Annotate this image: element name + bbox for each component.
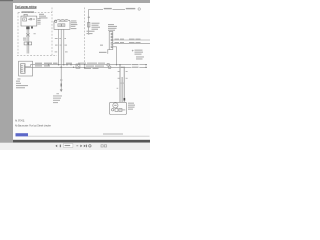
window top-left edge bbox=[0, 0, 13, 1]
relay K1 coil bbox=[23, 18, 27, 21]
pump terminal 1 bbox=[115, 109, 118, 112]
connector strip X1 labels above bbox=[108, 24, 117, 31]
dashed enclosure E2 vertical bbox=[51, 8, 53, 56]
ground drop wire bbox=[60, 67, 62, 89]
junction dots bbox=[48, 64, 147, 68]
main bus wire lower bbox=[25, 66, 147, 68]
wire from relay K1 down a bbox=[26, 26, 28, 54]
label on rail 2 bbox=[126, 8, 136, 9]
svg-text:Nr. 970411: Nr. 970411 bbox=[15, 119, 25, 123]
X1 bottom stub wire bbox=[108, 50, 109, 54]
U1 index circle bbox=[55, 21, 57, 23]
wire U1 pin1 down bbox=[58, 29, 60, 64]
inline connector pair C2 bbox=[24, 42, 27, 45]
splice block bbox=[31, 27, 33, 29]
ground arrow bbox=[60, 89, 63, 92]
fuel pump M1 box bbox=[110, 102, 127, 114]
pump wire 1 bbox=[119, 65, 121, 103]
terminal circle at rail end bbox=[138, 8, 140, 10]
dashed enclosure E1 bottom bbox=[17, 54, 57, 56]
toolbar zoom buttons bbox=[101, 145, 103, 147]
wire tick bbox=[60, 79, 62, 80]
dashed enclosure E1 left vertical bbox=[17, 12, 19, 55]
pump inner label bbox=[120, 109, 126, 110]
page footer fine print bbox=[103, 133, 123, 134]
U1 pin box 2 bbox=[62, 24, 65, 27]
toolbar first page button bbox=[55, 145, 57, 148]
pump wire labels bbox=[117, 71, 128, 89]
fusebox feed vertical bbox=[88, 9, 90, 33]
label under switch S1 bbox=[16, 78, 28, 88]
wire from relay K1 down b bbox=[28, 26, 30, 54]
inline connector on bus bbox=[76, 64, 80, 68]
wire code ticks on U1 wires bbox=[55, 38, 68, 52]
relay K1 contact bbox=[28, 18, 30, 20]
svg-text:Ab Baumuster: Fuel cut Diesel: Ab Baumuster: Fuel cut Diesel checker bbox=[15, 124, 51, 128]
bottom toolbar background bbox=[0, 143, 150, 150]
wire U1 pin2 down bbox=[60, 29, 62, 67]
splice segment dark bbox=[61, 84, 62, 87]
wire code labels bbox=[34, 33, 36, 34]
dashed enclosure E1 top bbox=[18, 12, 52, 14]
toolbar prev button bbox=[60, 145, 61, 148]
wire twist symbol bbox=[26, 33, 29, 36]
wire from X1 pin A bbox=[113, 39, 150, 41]
label right of pump bbox=[128, 103, 135, 110]
pump wire 2 (middle, lower run) bbox=[121, 77, 123, 102]
plus mark bbox=[132, 50, 134, 52]
white schematic page bbox=[13, 3, 150, 140]
connector strip X1 bbox=[109, 32, 113, 50]
fuse labels right bbox=[87, 23, 101, 34]
pump wire 3 bbox=[123, 67, 125, 98]
feed tick bbox=[88, 17, 90, 18]
form divider line bbox=[28, 135, 150, 137]
S1 internal wire step bbox=[25, 65, 33, 67]
viewer background margin bbox=[0, 0, 150, 150]
bus wire labels mid dense bbox=[78, 63, 105, 69]
label below X1 bbox=[99, 52, 107, 53]
relay pin labels bbox=[37, 18, 40, 25]
toolbar refresh button bbox=[89, 145, 91, 147]
fuse F1 block bbox=[88, 22, 90, 27]
label block right of U1 bbox=[71, 20, 78, 29]
toolbar last button bbox=[84, 145, 86, 148]
dashed enclosure E3 vertical bbox=[84, 8, 86, 64]
wire U1 pin3 down bbox=[63, 29, 65, 64]
control unit U1 box with scalloped top bbox=[54, 20, 70, 30]
switch S1 inner box bbox=[21, 64, 25, 74]
pump sender circle bbox=[112, 109, 114, 111]
wire from X1 pin C with turn bbox=[113, 47, 117, 65]
U1 pin smudges bbox=[58, 25, 60, 26]
pump terminal 2 bbox=[119, 109, 122, 112]
ground label block bbox=[53, 93, 62, 103]
U1 pin box 1 bbox=[58, 24, 61, 27]
inline connector dark on pump wire bbox=[124, 98, 126, 101]
wire from X1 pin B bbox=[113, 42, 150, 44]
connector symbol c1 bbox=[107, 63, 110, 66]
S1 contacts bbox=[21, 65, 22, 66]
switch S1 outer box bbox=[19, 61, 33, 76]
bus wire labels left bbox=[35, 63, 72, 67]
feed end dot bbox=[88, 33, 90, 35]
hyperlink selected bbox=[16, 133, 29, 136]
enclosure E1 label bbox=[22, 11, 35, 12]
label on rail 1 bbox=[104, 8, 112, 9]
toolbar sep bbox=[76, 144, 78, 147]
main bus wire upper bbox=[34, 64, 148, 66]
label block left of U1 bbox=[39, 14, 48, 19]
X1 pin squares bbox=[111, 33, 113, 47]
fuel pump motor circle bbox=[113, 103, 118, 108]
inline connector block dark bbox=[26, 27, 29, 30]
toolbar page input bbox=[64, 144, 73, 148]
bottom dark separator band bbox=[13, 140, 150, 143]
svg-text:Fuel pump wiring: Fuel pump wiring bbox=[15, 4, 37, 8]
label block right mid bbox=[135, 50, 145, 60]
relay K1 top tab bbox=[24, 14, 27, 16]
connector symbol c2 bbox=[108, 66, 111, 69]
bus wire labels right bbox=[132, 64, 140, 66]
X1 wire labels bbox=[115, 39, 141, 44]
U1 inner label bbox=[59, 21, 68, 22]
label left of X1 bbox=[100, 45, 103, 46]
power rail 30 (top right horizontal) bbox=[89, 8, 125, 10]
relay K1 box bbox=[21, 16, 37, 26]
relay internal label bbox=[33, 19, 35, 20]
toolbar next button bbox=[80, 145, 82, 148]
